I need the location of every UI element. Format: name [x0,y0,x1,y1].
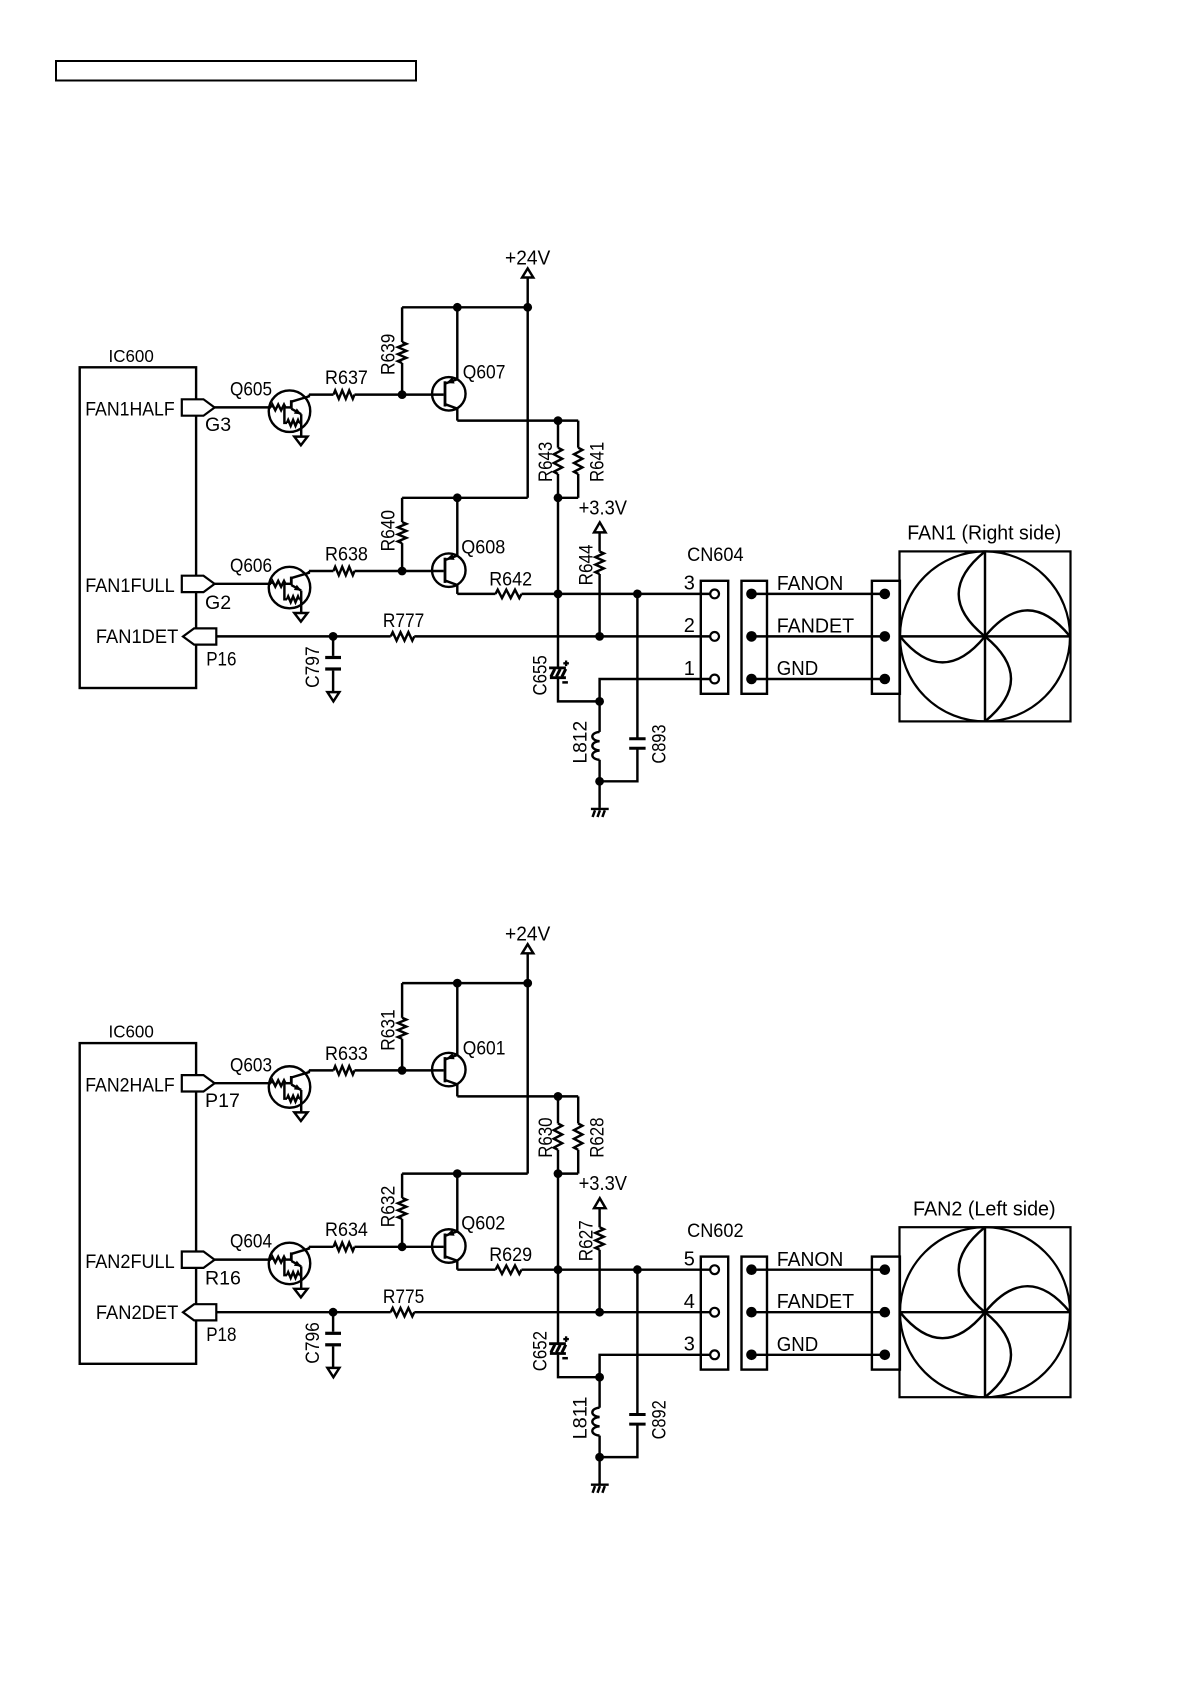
svg-text:P17: P17 [205,1090,240,1112]
svg-text:R633: R633 [325,1043,368,1065]
svg-text:C892: C892 [649,1400,671,1439]
svg-text:5: 5 [684,1248,695,1270]
svg-text:C797: C797 [302,646,324,688]
svg-text:R634: R634 [325,1219,368,1241]
svg-text:P18: P18 [206,1324,236,1346]
svg-text:FAN1FULL: FAN1FULL [85,575,175,597]
svg-text:Q605: Q605 [230,379,272,401]
svg-text:FAN1 (Right side): FAN1 (Right side) [907,522,1061,545]
svg-text:R631: R631 [377,1009,399,1050]
svg-text:R642: R642 [489,568,532,590]
svg-text:GND: GND [777,658,818,680]
svg-text:L811: L811 [570,1397,592,1440]
svg-text:FANDET: FANDET [777,615,854,637]
svg-text:C652: C652 [529,1331,551,1371]
svg-text:IC600: IC600 [109,346,155,366]
svg-text:Q603: Q603 [230,1054,272,1076]
svg-text:FAN2 (Left side): FAN2 (Left side) [913,1197,1056,1220]
svg-text:Q607: Q607 [463,362,506,384]
svg-text:R775: R775 [383,1286,424,1308]
svg-text:R641: R641 [586,442,608,482]
svg-text:R632: R632 [377,1186,399,1227]
svg-text:FAN2FULL: FAN2FULL [85,1251,175,1273]
svg-text:FAN2DET: FAN2DET [96,1302,178,1324]
svg-text:R643: R643 [535,442,557,482]
svg-text:R637: R637 [325,367,368,389]
svg-text:+3.3V: +3.3V [579,497,628,519]
svg-text:FAN1HALF: FAN1HALF [85,399,175,421]
svg-text:3: 3 [684,573,695,595]
svg-text:P16: P16 [206,648,236,670]
svg-text:R627: R627 [576,1220,598,1261]
svg-text:FANON: FANON [777,573,843,595]
svg-text:+24V: +24V [505,923,551,945]
svg-text:2: 2 [684,615,695,637]
svg-text:C655: C655 [529,655,551,695]
svg-text:4: 4 [684,1291,695,1313]
svg-text:R777: R777 [383,610,424,632]
svg-text:3: 3 [684,1334,695,1356]
svg-text:1: 1 [684,658,695,680]
svg-text:FAN1DET: FAN1DET [96,626,178,648]
svg-text:FANON: FANON [777,1249,843,1271]
svg-text:L812: L812 [570,721,592,764]
svg-text:C796: C796 [302,1322,324,1364]
svg-text:FAN2HALF: FAN2HALF [85,1075,175,1097]
svg-text:R629: R629 [489,1244,532,1266]
svg-text:Q606: Q606 [230,555,272,577]
svg-text:R16: R16 [205,1268,241,1290]
svg-text:G3: G3 [205,414,231,436]
svg-text:FANDET: FANDET [777,1291,854,1313]
svg-text:CN604: CN604 [687,544,744,566]
svg-text:R630: R630 [535,1117,557,1157]
svg-text:G2: G2 [205,592,231,614]
svg-text:R638: R638 [325,543,368,565]
svg-text:C893: C893 [649,724,671,763]
svg-text:CN602: CN602 [687,1220,744,1242]
svg-text:Q604: Q604 [230,1231,272,1253]
svg-text:+3.3V: +3.3V [579,1173,628,1195]
svg-text:Q608: Q608 [461,537,505,559]
svg-text:R640: R640 [377,510,399,551]
svg-text:R644: R644 [576,544,598,585]
svg-text:R639: R639 [377,334,399,375]
svg-text:Q601: Q601 [463,1038,506,1060]
svg-text:+24V: +24V [505,248,551,270]
svg-text:GND: GND [777,1334,818,1356]
svg-text:IC600: IC600 [109,1022,155,1042]
svg-text:R628: R628 [586,1117,608,1157]
svg-text:Q602: Q602 [461,1212,505,1234]
